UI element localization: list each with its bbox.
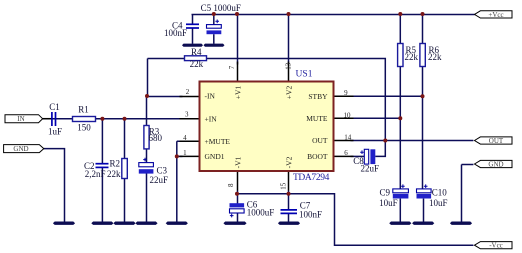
svg-text:STBY: STBY xyxy=(308,92,328,101)
svg-text:22k: 22k xyxy=(405,52,419,62)
svg-text:R1: R1 xyxy=(78,104,89,114)
svg-text:BOOT: BOOT xyxy=(307,152,328,161)
svg-text:10uF: 10uF xyxy=(429,198,448,208)
svg-text:OUT: OUT xyxy=(312,136,328,145)
svg-text:OUT: OUT xyxy=(489,137,504,145)
svg-text:150: 150 xyxy=(77,122,91,132)
svg-text:C5 1000uF: C5 1000uF xyxy=(201,3,241,13)
svg-text:9: 9 xyxy=(344,89,348,97)
svg-text:GND1: GND1 xyxy=(205,152,225,161)
svg-text:15: 15 xyxy=(279,182,287,190)
svg-text:22uF: 22uF xyxy=(360,163,379,173)
svg-text:US1: US1 xyxy=(296,69,313,79)
svg-text:+Vcc: +Vcc xyxy=(488,11,503,19)
svg-text:-V1: -V1 xyxy=(234,156,243,168)
svg-text:6: 6 xyxy=(344,149,348,157)
svg-text:2: 2 xyxy=(186,88,190,96)
svg-text:TDA7294: TDA7294 xyxy=(293,173,330,183)
svg-text:10: 10 xyxy=(344,112,352,120)
svg-text:R4: R4 xyxy=(191,47,202,57)
svg-text:-IN: -IN xyxy=(205,92,216,101)
svg-text:-V2: -V2 xyxy=(284,156,293,168)
svg-text:680: 680 xyxy=(149,133,163,143)
svg-text:2,2nF: 2,2nF xyxy=(85,169,106,179)
svg-text:22k: 22k xyxy=(428,52,442,62)
svg-text:R2: R2 xyxy=(109,159,120,169)
svg-text:IN: IN xyxy=(17,115,24,123)
svg-text:22k: 22k xyxy=(107,169,121,179)
svg-text:22uF: 22uF xyxy=(150,175,169,185)
svg-text:C1: C1 xyxy=(49,102,60,112)
svg-text:7: 7 xyxy=(228,65,236,69)
svg-text:-Vcc: -Vcc xyxy=(489,242,503,250)
svg-text:10uF: 10uF xyxy=(379,198,398,208)
svg-text:C10: C10 xyxy=(432,188,448,198)
svg-text:+V1: +V1 xyxy=(234,86,243,100)
svg-text:C3: C3 xyxy=(157,166,168,176)
svg-text:4: 4 xyxy=(183,134,187,142)
svg-text:14: 14 xyxy=(344,133,352,141)
svg-text:MUTE: MUTE xyxy=(306,114,328,123)
svg-text:GND: GND xyxy=(488,161,503,169)
svg-text:1uF: 1uF xyxy=(48,126,62,136)
svg-text:100nF: 100nF xyxy=(299,210,322,220)
svg-text:8: 8 xyxy=(227,183,235,187)
svg-text:+IN: +IN xyxy=(205,114,218,123)
svg-text:1000uF: 1000uF xyxy=(247,207,275,217)
svg-text:GND: GND xyxy=(13,145,28,153)
svg-text:1: 1 xyxy=(183,149,187,157)
svg-text:+MUTE: +MUTE xyxy=(205,137,231,146)
svg-text:3: 3 xyxy=(185,110,189,118)
svg-text:C9: C9 xyxy=(379,187,390,197)
svg-text:100nF: 100nF xyxy=(164,28,187,38)
svg-text:+V2: +V2 xyxy=(284,86,293,100)
svg-text:22k: 22k xyxy=(190,59,204,69)
svg-text:13: 13 xyxy=(284,62,292,70)
